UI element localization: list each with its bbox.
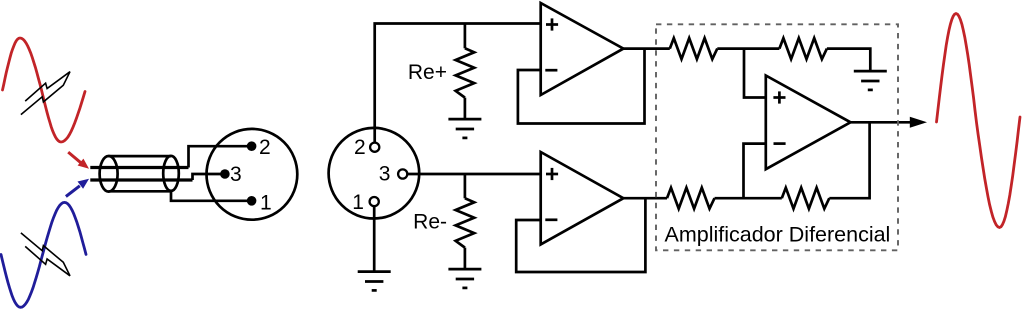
svg-text:2: 2 <box>259 136 271 159</box>
svg-text:Amplificador Diferencial: Amplificador Diferencial <box>665 222 891 246</box>
svg-text:Re+: Re+ <box>408 61 447 84</box>
svg-text:3: 3 <box>379 163 391 186</box>
svg-text:2: 2 <box>354 136 366 159</box>
svg-text:1: 1 <box>352 191 364 214</box>
svg-text:1: 1 <box>260 191 272 214</box>
svg-text:3: 3 <box>230 163 242 186</box>
svg-text:Re-: Re- <box>413 210 447 233</box>
